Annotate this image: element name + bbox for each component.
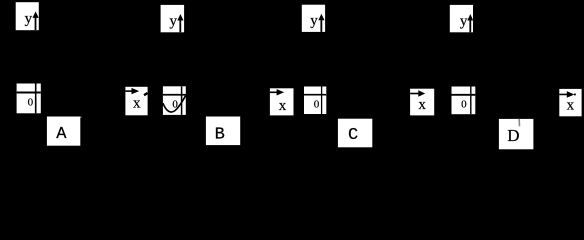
- option C: y-axis arrowhead: [318, 14, 324, 20]
- option D: x-axis line through origin: [452, 94, 476, 96]
- svg-text:C: C: [348, 126, 358, 145]
- svg-text:y: y: [460, 13, 468, 29]
- option A: x-axis line through origin: [17, 92, 41, 94]
- option B: origin box: [163, 86, 186, 115]
- option A: answer letter box: [47, 117, 80, 146]
- svg-text:x: x: [567, 97, 575, 113]
- option C: y-axis line through origin: [321, 87, 323, 115]
- svg-text:0: 0: [314, 99, 320, 111]
- option D: y-axis line through origin: [470, 87, 472, 115]
- option A: stray gray pixel at letter box corner: [80, 117, 81, 118]
- option C: x-axis arrowhead: [418, 90, 425, 96]
- option D: x-axis label box: [559, 89, 581, 116]
- svg-text:0: 0: [28, 96, 34, 108]
- option B: y-axis arrowhead: [177, 14, 183, 21]
- svg-text:0: 0: [172, 99, 178, 111]
- option C: y-axis arrow shaft: [320, 16, 322, 32]
- svg-text:A: A: [56, 125, 67, 144]
- svg-text:y: y: [170, 13, 178, 29]
- svg-text:D: D: [507, 126, 519, 145]
- svg-text:y: y: [310, 13, 318, 29]
- option A: y-axis arrowhead: [33, 11, 39, 18]
- option B: answer letter box: [206, 117, 240, 146]
- option B: x-axis line: [270, 91, 278, 93]
- option C: x-axis line: [410, 93, 419, 95]
- option B: x-axis arrowhead: [277, 89, 285, 95]
- option A: x-axis label box: [125, 87, 147, 116]
- option B: y-axis label box: [161, 5, 185, 32]
- svg-text:B: B: [215, 125, 225, 144]
- option C: origin box: [304, 87, 326, 115]
- svg-text:x: x: [133, 96, 141, 112]
- svg-text:x: x: [279, 98, 287, 114]
- option B: x-axis label box: [270, 88, 294, 115]
- option A: y-axis line through origin: [35, 84, 37, 114]
- option B: y-axis line through origin: [181, 86, 183, 115]
- option B: y-axis arrow shaft: [179, 17, 181, 33]
- option D: origin box: [452, 87, 476, 115]
- option D: y-axis arrowhead: [467, 14, 473, 21]
- option D: x-axis line: [559, 93, 567, 95]
- option D: answer letter box: [499, 119, 534, 149]
- option B: x-axis line through origin: [163, 94, 186, 96]
- option D: y-axis label box: [450, 5, 473, 32]
- option A: y-axis arrow shaft: [35, 14, 37, 30]
- option A: y-axis label box: [16, 2, 39, 30]
- svg-text:x: x: [418, 97, 426, 113]
- option B: curve through origin box: [163, 95, 186, 112]
- option C: answer letter box: [338, 119, 372, 148]
- option A: x-axis line: [125, 90, 132, 92]
- option C: y-axis label box: [302, 5, 325, 32]
- option C: x-axis label box: [410, 89, 434, 116]
- option A: curve notch at box edge: [144, 93, 148, 95]
- option D: x-axis nub after arrowhead: [574, 93, 576, 95]
- option D: y-axis arrow shaft: [469, 17, 471, 33]
- option D: x-axis arrowhead: [567, 91, 575, 98]
- option C: x-axis line through origin: [304, 94, 326, 96]
- option D: gray tick above letter box: [518, 119, 520, 126]
- svg-text:y: y: [25, 11, 33, 27]
- option A: x-axis arrowhead: [132, 88, 140, 94]
- svg-text:0: 0: [461, 98, 467, 110]
- option A: origin box: [17, 84, 41, 114]
